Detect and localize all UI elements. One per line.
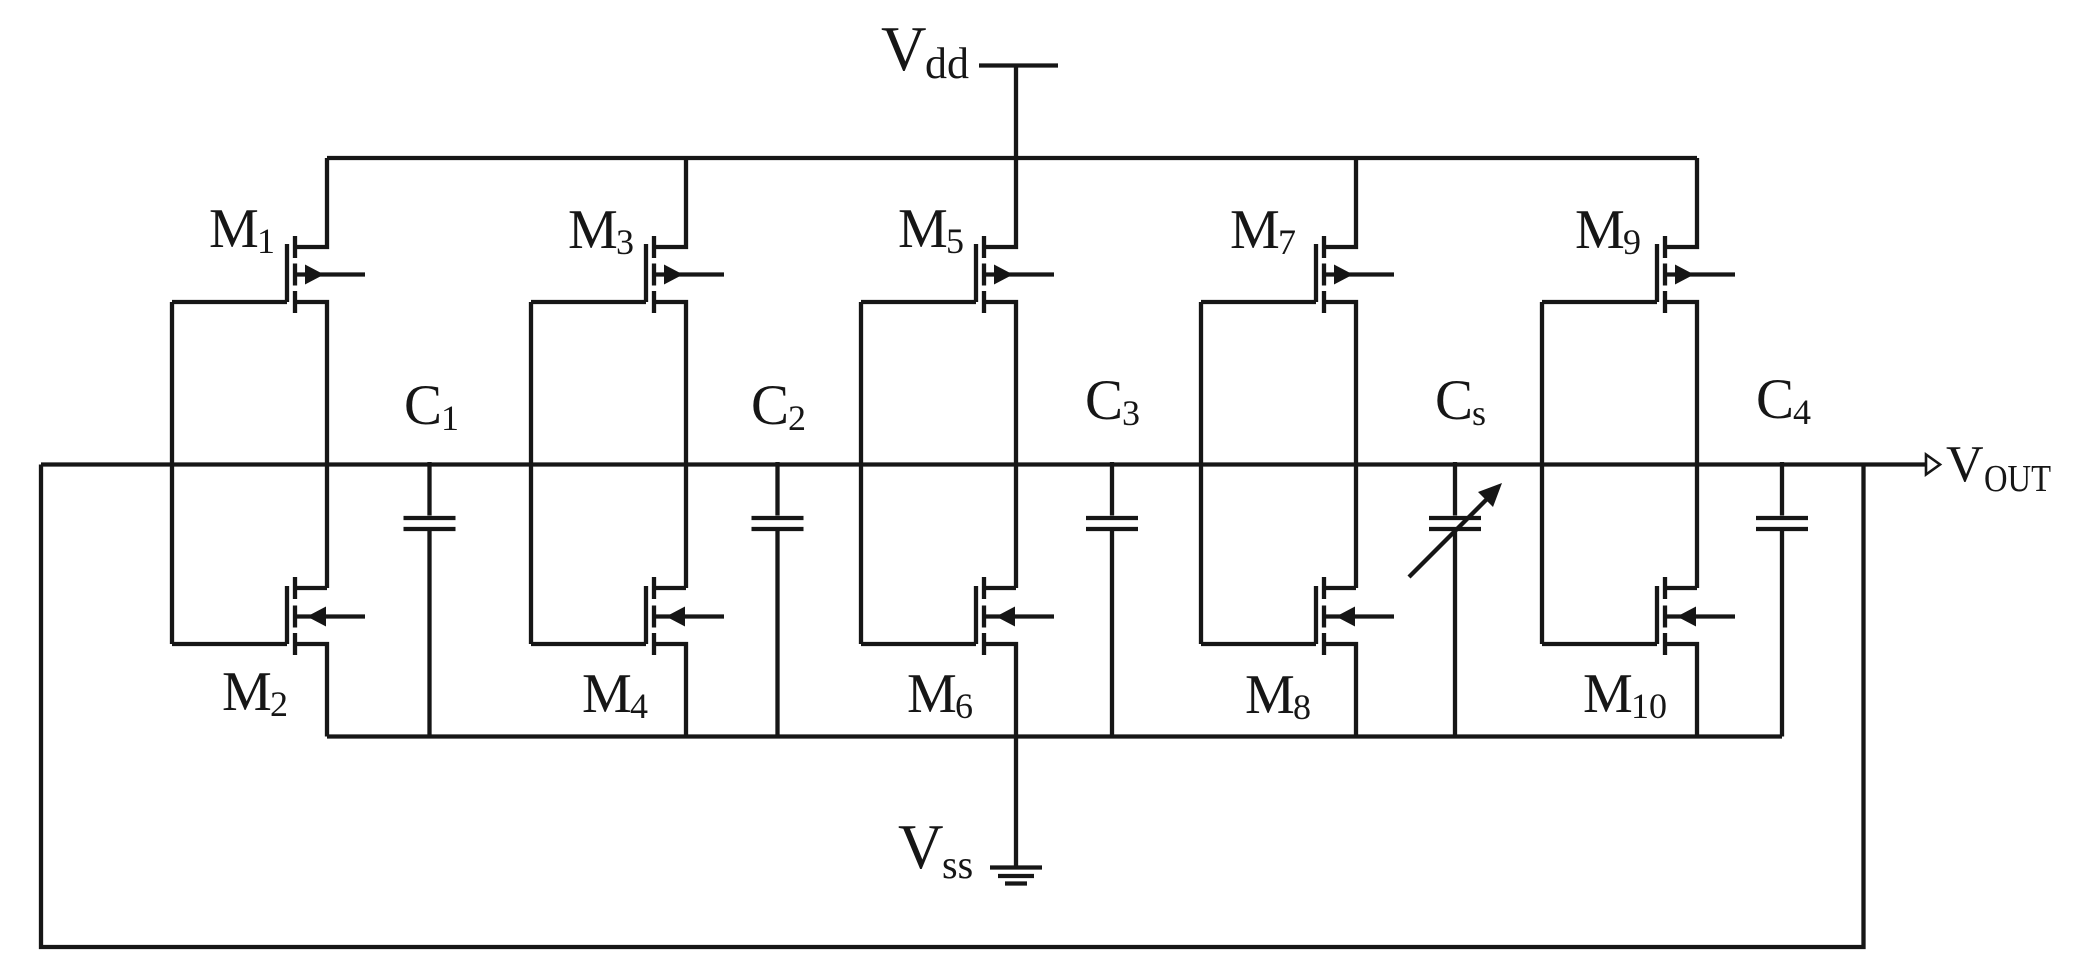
svg-text:V: V [1946,436,1984,493]
svg-text:OUT: OUT [1984,458,2051,500]
svg-text:2: 2 [788,398,806,438]
svg-text:dd: dd [925,39,969,88]
svg-text:M: M [1583,663,1633,725]
svg-text:M: M [222,661,272,723]
svg-text:C: C [1085,369,1123,432]
svg-text:M: M [1575,199,1625,261]
svg-text:4: 4 [630,686,648,726]
svg-text:s: s [1472,393,1486,433]
svg-text:1: 1 [441,398,459,438]
svg-text:C: C [1435,369,1473,432]
svg-text:1: 1 [257,221,275,261]
svg-text:4: 4 [1793,392,1811,432]
svg-text:V: V [898,812,944,882]
svg-text:M: M [582,663,632,725]
svg-text:ss: ss [942,842,973,887]
svg-text:2: 2 [270,684,288,724]
svg-text:9: 9 [1623,222,1641,262]
svg-text:M: M [898,198,948,260]
svg-text:M: M [907,663,957,725]
svg-text:8: 8 [1293,687,1311,727]
svg-text:M: M [1230,199,1280,261]
svg-text:10: 10 [1631,686,1667,726]
svg-text:M: M [568,199,618,261]
svg-text:5: 5 [946,221,964,261]
svg-text:C: C [1756,368,1794,431]
svg-text:M: M [1245,664,1295,726]
svg-text:7: 7 [1278,222,1296,262]
svg-text:6: 6 [955,686,973,726]
svg-text:V: V [881,14,927,84]
svg-text:3: 3 [616,222,634,262]
svg-text:C: C [404,374,442,437]
svg-text:M: M [209,198,259,260]
svg-text:C: C [751,374,789,437]
svg-text:3: 3 [1122,393,1140,433]
